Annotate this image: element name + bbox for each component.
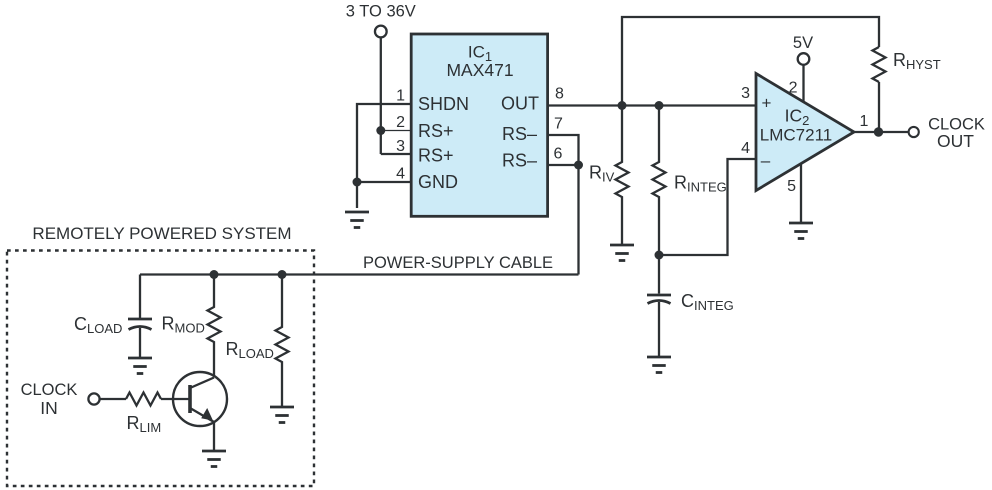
wire OUT pin8 to comparator + (547, 104, 756, 106)
junction pin2/pin3 supply (376, 126, 385, 135)
svg-text:RLOAD: RLOAD (226, 339, 274, 361)
wire comparator output (854, 131, 910, 133)
wire comparator pin4 to junction (659, 159, 756, 255)
svg-text:2: 2 (789, 80, 798, 97)
wire CINTEG top (658, 255, 660, 294)
ground RIV (610, 245, 634, 261)
wire pin2 RS+ stub (381, 130, 411, 132)
ground CLOAD (128, 358, 152, 374)
node CLOCK IN terminal (88, 393, 99, 404)
svg-text:RHYST: RHYST (893, 50, 941, 72)
wire emitter to ground (213, 422, 215, 451)
wire RHYST to output node (878, 82, 880, 132)
svg-text:POWER-SUPPLY CABLE: POWER-SUPPLY CABLE (363, 254, 553, 272)
wire pin5 to ground (800, 164, 802, 223)
wire 3TO36V to RS+ pins (380, 38, 382, 155)
resistor RIV (616, 106, 629, 246)
junction RINTEG/CINTEG/pin4 (655, 251, 664, 260)
svg-text:MAX471: MAX471 (446, 60, 513, 80)
svg-text:6: 6 (554, 146, 563, 163)
junction OUT/RIV/feedback (618, 101, 627, 110)
svg-text:CLOCK: CLOCK (21, 381, 78, 399)
wire CLOCK IN to base (100, 398, 126, 400)
resistor RLIM (126, 393, 161, 406)
svg-text:2: 2 (396, 114, 405, 131)
resistor RHYST (873, 47, 886, 82)
wire CLOAD top (139, 275, 141, 320)
ground IC2 (789, 223, 813, 239)
svg-text:3: 3 (396, 138, 405, 155)
transistor Q1 (173, 372, 227, 426)
op-amp-box IC1 MAX471 (411, 34, 547, 216)
resistor RMOD (208, 275, 221, 378)
svg-text:SHDN: SHDN (418, 94, 469, 114)
wire pin2 to 5V (802, 65, 804, 102)
op-amp IC2 LMC7211 (756, 74, 854, 191)
svg-text:3: 3 (741, 85, 750, 102)
svg-text:5: 5 (787, 178, 796, 195)
node 5V terminal (798, 53, 810, 65)
junction OUT/RINTEG (655, 101, 664, 110)
svg-text:RIV: RIV (589, 163, 615, 185)
svg-text:CLOAD: CLOAD (74, 314, 122, 336)
svg-text:RS–: RS– (502, 151, 537, 171)
ground IC1 (345, 212, 369, 228)
wire pin6 RS- (547, 164, 579, 166)
svg-text:RS–: RS– (502, 124, 537, 144)
svg-text:RLIM: RLIM (127, 413, 162, 435)
resistor RLOAD (276, 275, 289, 408)
junction output/RHYST (874, 127, 883, 136)
capacitor CINTEG (647, 295, 671, 304)
svg-text:OUT: OUT (501, 94, 539, 114)
junction SHDN/GND (353, 178, 362, 187)
svg-text:1: 1 (860, 113, 869, 130)
ground emitter (202, 451, 226, 467)
svg-text:REMOTELY POWERED SYSTEM: REMOTELY POWERED SYSTEM (32, 224, 291, 243)
wire pin3 RS+ stub (381, 153, 411, 155)
node 3 TO 36V terminal (375, 26, 387, 38)
wire pin4 GND (357, 181, 411, 183)
junction cable/RMOD (210, 270, 219, 279)
wire pin7 RS- (547, 135, 579, 275)
junction cable/RLOAD (278, 270, 287, 279)
svg-text:3 TO 36V: 3 TO 36V (346, 2, 416, 20)
svg-text:4: 4 (741, 140, 750, 157)
dashed system box (7, 251, 314, 487)
wire CINTEG to ground (658, 302, 660, 357)
svg-text:GND: GND (418, 172, 458, 192)
ground RLOAD (270, 407, 294, 423)
ground CINTEG (647, 357, 671, 373)
svg-text:RS+: RS+ (418, 146, 454, 166)
wire feedback top (622, 17, 879, 106)
wire pin1 SHDN to ground rail (357, 104, 411, 208)
svg-text:LMC7211: LMC7211 (760, 125, 832, 144)
svg-text:RINTEG: RINTEG (674, 173, 727, 195)
svg-text:RS+: RS+ (418, 121, 454, 141)
svg-text:8: 8 (555, 86, 564, 103)
capacitor CLOAD (128, 319, 152, 330)
svg-text:CINTEG: CINTEG (681, 291, 734, 313)
junction pin6/pin7 (574, 161, 583, 170)
svg-text:RMOD: RMOD (162, 314, 205, 336)
resistor RINTEG (653, 106, 666, 256)
wire power-supply cable (140, 273, 579, 275)
svg-text:–: – (761, 151, 771, 170)
svg-text:IN: IN (40, 398, 58, 418)
svg-text:4: 4 (396, 166, 405, 183)
svg-text:1: 1 (396, 88, 405, 105)
svg-text:+: + (762, 94, 772, 113)
wire CLOAD to ground (139, 328, 141, 358)
svg-text:5V: 5V (793, 34, 813, 52)
svg-text:OUT: OUT (937, 131, 974, 151)
svg-text:7: 7 (554, 116, 563, 133)
node CLOCK OUT terminal (909, 127, 919, 137)
wire RLIM to base (161, 398, 189, 400)
